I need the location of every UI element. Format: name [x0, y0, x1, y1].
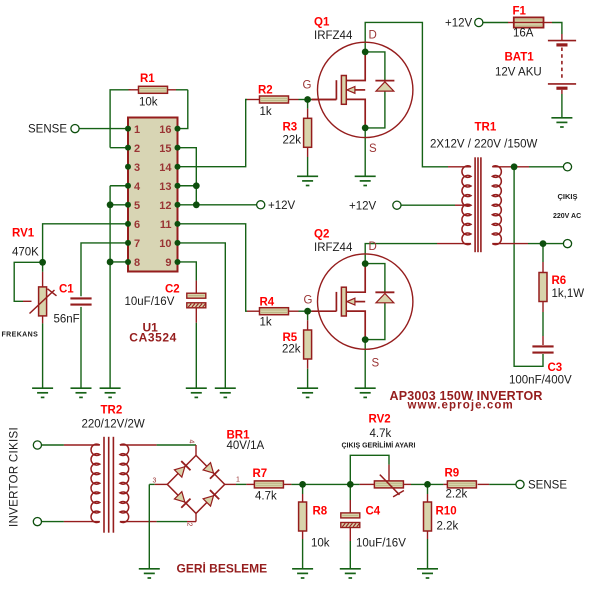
- svg-text:9: 9: [165, 257, 171, 269]
- svg-text:2.2k: 2.2k: [437, 521, 459, 533]
- svg-text:12: 12: [159, 200, 171, 212]
- svg-text:12V AKU: 12V AKU: [495, 67, 542, 79]
- svg-text:3: 3: [153, 478, 157, 485]
- svg-text:5: 5: [134, 200, 140, 212]
- svg-text:www.eproje.com: www.eproje.com: [407, 400, 514, 412]
- svg-text:13: 13: [159, 181, 171, 193]
- svg-text:2X12V / 220V /150W: 2X12V / 220V /150W: [430, 139, 538, 151]
- svg-text:3: 3: [134, 162, 140, 174]
- svg-text:+12V: +12V: [445, 18, 473, 30]
- svg-text:40V/1A: 40V/1A: [227, 440, 265, 452]
- svg-text:10k: 10k: [139, 97, 158, 109]
- svg-text:FREKANS: FREKANS: [2, 332, 39, 339]
- svg-text:F1: F1: [513, 6, 527, 18]
- svg-text:SENSE: SENSE: [28, 124, 67, 136]
- svg-text:R2: R2: [258, 85, 273, 97]
- svg-text:2.2k: 2.2k: [446, 489, 468, 501]
- svg-text:CA3524: CA3524: [129, 330, 177, 344]
- svg-text:220V AC: 220V AC: [553, 213, 581, 220]
- svg-text:16: 16: [159, 124, 171, 136]
- svg-text:C4: C4: [366, 506, 381, 518]
- svg-text:SENSE: SENSE: [528, 480, 567, 492]
- svg-text:RV2: RV2: [369, 414, 391, 426]
- svg-text:6: 6: [134, 219, 140, 231]
- svg-text:10uF/16V: 10uF/16V: [356, 538, 406, 550]
- svg-text:2: 2: [186, 523, 193, 527]
- svg-text:S: S: [372, 358, 380, 370]
- svg-text:+12V: +12V: [268, 200, 296, 212]
- svg-text:2: 2: [134, 143, 140, 155]
- svg-text:BAT1: BAT1: [505, 52, 535, 64]
- svg-text:1k,1W: 1k,1W: [552, 288, 585, 300]
- svg-text:G: G: [304, 295, 313, 307]
- svg-text:R10: R10: [436, 506, 457, 518]
- svg-text:RV1: RV1: [12, 228, 35, 240]
- svg-text:22k: 22k: [283, 134, 302, 146]
- svg-text:4.7k: 4.7k: [370, 428, 392, 440]
- svg-text:R7: R7: [253, 468, 268, 480]
- svg-text:1k: 1k: [260, 317, 272, 329]
- svg-text:10: 10: [159, 238, 171, 250]
- svg-text:TR1: TR1: [475, 122, 497, 134]
- svg-text:56nF: 56nF: [54, 314, 80, 326]
- svg-text:100nF/400V: 100nF/400V: [509, 375, 572, 387]
- svg-text:R5: R5: [283, 332, 298, 344]
- svg-text:1: 1: [236, 477, 240, 484]
- svg-text:C1: C1: [59, 284, 74, 296]
- svg-text:ÇIKIŞ GERİLİMİ AYARI: ÇIKIŞ GERİLİMİ AYARI: [342, 442, 416, 450]
- svg-text:10k: 10k: [311, 538, 330, 550]
- svg-text:R1: R1: [140, 73, 155, 85]
- svg-text:IRFZ44: IRFZ44: [314, 242, 353, 254]
- svg-text:1k: 1k: [260, 106, 272, 118]
- svg-text:IRFZ44: IRFZ44: [314, 30, 353, 42]
- svg-text:10uF/16V: 10uF/16V: [125, 296, 175, 308]
- svg-text:S: S: [369, 143, 377, 155]
- svg-text:220/12V/2W: 220/12V/2W: [82, 419, 145, 431]
- svg-text:R9: R9: [445, 468, 460, 480]
- svg-text:470K: 470K: [12, 247, 39, 259]
- svg-text:4.7k: 4.7k: [255, 491, 277, 503]
- svg-text:R6: R6: [552, 275, 567, 287]
- svg-text:11: 11: [160, 219, 172, 231]
- svg-text:TR2: TR2: [101, 405, 123, 417]
- svg-text:16A: 16A: [513, 28, 534, 40]
- svg-text:INVERTOR CIKISI: INVERTOR CIKISI: [9, 427, 21, 527]
- svg-text:8: 8: [134, 257, 140, 269]
- svg-text:C2: C2: [165, 284, 180, 296]
- svg-text:22k: 22k: [282, 343, 301, 355]
- svg-text:R3: R3: [283, 122, 298, 134]
- svg-text:D: D: [369, 241, 377, 253]
- svg-text:R8: R8: [313, 506, 328, 518]
- svg-text:14: 14: [159, 162, 172, 174]
- svg-text:15: 15: [159, 143, 171, 155]
- svg-text:4: 4: [188, 440, 195, 444]
- svg-text:R4: R4: [260, 297, 275, 309]
- svg-text:+12V: +12V: [349, 201, 377, 213]
- svg-text:Q2: Q2: [314, 229, 329, 241]
- svg-text:G: G: [303, 80, 312, 92]
- svg-text:ÇIKIŞ: ÇIKIŞ: [558, 192, 578, 201]
- svg-text:7: 7: [134, 238, 140, 250]
- svg-text:Q1: Q1: [314, 17, 330, 29]
- svg-text:D: D: [369, 30, 377, 42]
- svg-text:1: 1: [134, 124, 140, 136]
- svg-text:4: 4: [134, 181, 141, 193]
- svg-text:GERİ BESLEME: GERİ BESLEME: [177, 561, 268, 576]
- svg-text:C3: C3: [548, 362, 563, 374]
